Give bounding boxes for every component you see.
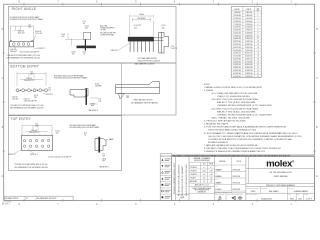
right angle front view body bbox=[10, 41, 34, 47]
svg-text:.045: .045 bbox=[85, 28, 88, 30]
svg-text:B: B bbox=[218, 196, 221, 201]
svg-text:4.50±.05: 4.50±.05 bbox=[35, 31, 41, 33]
svg-text:B: B bbox=[316, 125, 318, 129]
svg-text:.177±.002: .177±.002 bbox=[35, 33, 42, 35]
svg-text:SELECT TIN (3.80) .000150 MIN.: SELECT TIN (3.80) .000150 MIN. bbox=[217, 102, 257, 104]
svg-text:TYP: TYP bbox=[91, 106, 94, 108]
bottom entry side view bbox=[70, 89, 88, 98]
svg-text:OF PIN: OF PIN bbox=[100, 29, 105, 31]
bottom row cells bbox=[286, 193, 288, 200]
svg-text:.100: .100 bbox=[71, 54, 74, 56]
svg-text:±0.2: ±0.2 bbox=[203, 174, 206, 176]
svg-text:±.05: ±.05 bbox=[210, 178, 213, 180]
svg-text:CIRCUIT 1: CIRCUIT 1 bbox=[30, 154, 38, 156]
svg-text:.049: .049 bbox=[30, 73, 33, 75]
svg-text:SCA-41815: SCA-41815 bbox=[261, 197, 273, 200]
svg-text:(2.54): (2.54) bbox=[55, 130, 60, 132]
svg-text:2.54: 2.54 bbox=[171, 46, 174, 48]
dims above bottom entry front view bbox=[17, 72, 46, 86]
middle housing profile bbox=[84, 32, 91, 39]
svg-text:CIRCUIT 1: CIRCUIT 1 bbox=[46, 94, 54, 96]
svg-text:.100 TYP: .100 TYP bbox=[171, 48, 177, 50]
svg-text:CIRCUIT 1: CIRCUIT 1 bbox=[38, 48, 46, 50]
pins removed option figure bbox=[116, 82, 160, 94]
svg-text:CIRCUIT 1: CIRCUIT 1 bbox=[110, 50, 118, 52]
svg-text:DIM ‘B’: DIM ‘B’ bbox=[246, 9, 252, 11]
svg-text:NOTES:: NOTES: bbox=[204, 84, 210, 86]
svg-text:.200 REF: .200 REF bbox=[95, 85, 102, 87]
svg-text:A: A bbox=[2, 174, 4, 178]
svg-text:.440: .440 bbox=[61, 36, 64, 38]
svg-text:.200±.002: .200±.002 bbox=[12, 98, 19, 100]
svg-text:PSD: PSD bbox=[290, 198, 295, 200]
quality marks column bbox=[160, 154, 171, 201]
dimension chart table bbox=[231, 7, 261, 78]
svg-text:.200±.002: .200±.002 bbox=[10, 51, 17, 53]
svg-text:(1.14): (1.14) bbox=[161, 25, 166, 27]
AP box bbox=[176, 194, 190, 196]
svg-text:B: B bbox=[2, 125, 4, 129]
svg-text:63.50/2.500: 63.50/2.500 bbox=[233, 76, 241, 78]
svg-text:RECOMMENDED PCB THICKNESS .06: RECOMMENDED PCB THICKNESS .062/.093 bbox=[7, 58, 40, 60]
svg-text:58.42/2.300: 58.42/2.300 bbox=[245, 76, 253, 78]
svg-text:.049: .049 bbox=[28, 27, 31, 29]
svg-text:CHK: CHK bbox=[215, 166, 218, 168]
svg-text:(1.5): (1.5) bbox=[83, 21, 87, 23]
svg-text:.06: .06 bbox=[84, 134, 86, 136]
middle pin bbox=[85, 39, 86, 50]
svg-text:5.08±.05: 5.08±.05 bbox=[12, 96, 18, 98]
svg-text:molex®: molex® bbox=[266, 158, 295, 169]
disclaimer strip bbox=[172, 154, 315, 156]
svg-text:.049: .049 bbox=[35, 126, 38, 128]
svg-text:(5.08): (5.08) bbox=[95, 83, 100, 85]
svg-text:.146: .146 bbox=[102, 155, 105, 157]
right angle front view dimension lines bbox=[11, 25, 36, 41]
svg-text:.06: .06 bbox=[83, 23, 85, 25]
svg-text:.200±.002: .200±.002 bbox=[17, 33, 24, 35]
svg-text:5.08±.05: 5.08±.05 bbox=[26, 78, 32, 80]
svg-text:SEE NOTE 8: SEE NOTE 8 bbox=[88, 110, 98, 112]
box2 internal divider bbox=[121, 63, 123, 115]
release status table bbox=[5, 196, 74, 200]
svg-text:1.25: 1.25 bbox=[28, 25, 31, 27]
svg-text:1.02: 1.02 bbox=[126, 95, 129, 97]
svg-text:±0.5: ±0.5 bbox=[203, 178, 206, 180]
doc number row bbox=[259, 186, 261, 193]
svg-text:±0.05: ±0.05 bbox=[202, 170, 206, 172]
border frame bbox=[4, 4, 315, 200]
top entry side view bbox=[95, 139, 106, 151]
svg-text:TOP ENTRY: TOP ENTRY bbox=[10, 117, 31, 121]
svg-text:.146: .146 bbox=[98, 101, 101, 103]
svg-text:3.71: 3.71 bbox=[98, 99, 101, 101]
svg-text:000: 000 bbox=[298, 198, 301, 200]
svg-text:RECOMMENDED PCB THICKNESS .06: RECOMMENDED PCB THICKNESS .062/.093 bbox=[15, 167, 48, 169]
side view pin bar bbox=[86, 89, 88, 105]
svg-text:A-P: A-P bbox=[180, 197, 184, 200]
svg-text:WILL BE ROUND PIN: WILL BE ROUND PIN bbox=[100, 32, 115, 34]
svg-text:A: A bbox=[316, 174, 318, 178]
svg-text:SEE NOTE 8: SEE NOTE 8 bbox=[100, 166, 109, 168]
bottom entry front view circles bbox=[16, 89, 48, 92]
svg-text:(UNLESS SPECIFIED): (UNLESS SPECIFIED) bbox=[194, 160, 210, 162]
molex logo cell bbox=[247, 157, 249, 184]
DIM A bracket bbox=[130, 15, 154, 37]
svg-text:41815: 41815 bbox=[251, 191, 256, 193]
svg-text:TYPE: TYPE bbox=[288, 194, 291, 196]
svg-text:1997/01/28: 1997/01/28 bbox=[232, 189, 240, 191]
pins to side view bbox=[154, 38, 164, 40]
svg-text:1997/01/28: 1997/01/28 bbox=[232, 169, 240, 171]
svg-text:2. FINISH:: 2. FINISH: bbox=[204, 90, 214, 92]
svg-text:(1.5): (1.5) bbox=[84, 133, 88, 135]
svg-text:±.02: ±.02 bbox=[210, 174, 213, 176]
svg-text:RECOMMENDED PCB THICKNESS .06: RECOMMENDED PCB THICKNESS .062/.093 bbox=[10, 108, 43, 110]
svg-text:(3.3): (3.3) bbox=[83, 52, 87, 54]
svg-text:HOUSING 41815-N-XX-H WITHOUT: HOUSING 41815-N-XX-H WITHOUT RAMP bbox=[54, 77, 88, 80]
svg-text:1997/01/28: 1997/01/28 bbox=[232, 182, 240, 184]
svg-text:.13: .13 bbox=[83, 54, 85, 56]
svg-text:SHEET: SHEET bbox=[304, 194, 308, 196]
svg-text:NOTE: NOTE bbox=[237, 161, 241, 163]
svg-text:5.08±.05: 5.08±.05 bbox=[10, 49, 16, 51]
svg-text:1.25: 1.25 bbox=[30, 71, 33, 73]
svg-text:11.18: 11.18 bbox=[61, 34, 65, 36]
svg-text:1.25: 1.25 bbox=[35, 124, 38, 126]
svg-text:CIRCUIT 2: CIRCUIT 2 bbox=[8, 154, 16, 156]
notes block bbox=[204, 84, 302, 153]
dims above top entry bbox=[22, 125, 52, 136]
svg-text:SELECT TIN (3.80) .000150 MIN.: SELECT TIN (3.80) .000150 MIN. bbox=[217, 111, 257, 113]
table rows bbox=[231, 12, 261, 78]
svg-text:.040: .040 bbox=[126, 97, 129, 99]
svg-text:.100: .100 bbox=[48, 89, 51, 91]
RIGHT ANGLE section box bbox=[8, 6, 176, 63]
svg-text:REV: REV bbox=[297, 194, 300, 196]
middle pcb bar bbox=[77, 46, 96, 49]
svg-text:.045: .045 bbox=[134, 27, 137, 29]
svg-text:1 OF 1: 1 OF 1 bbox=[306, 199, 313, 201]
svg-text:DIM B REF: DIM B REF bbox=[137, 18, 145, 20]
svg-text:(1.14) TYP: (1.14) TYP bbox=[134, 25, 141, 27]
svg-text:24: 24 bbox=[257, 76, 259, 78]
svg-text:(1.14): (1.14) bbox=[85, 26, 90, 28]
svg-text:.045: .045 bbox=[161, 27, 164, 29]
svg-text:HOUSING 41815-N-XX-H WITHOUT: HOUSING 41815-N-XX-H WITHOUT RAMP bbox=[10, 18, 44, 21]
svg-text:.100: .100 bbox=[55, 132, 58, 134]
svg-text:DOCUMENT NUMBER: DOCUMENT NUMBER bbox=[247, 187, 259, 189]
svg-text:2.00±.05: 2.00±.05 bbox=[24, 98, 30, 100]
vertical pins bbox=[130, 41, 153, 52]
svg-text:5.08±.05: 5.08±.05 bbox=[31, 130, 37, 132]
svg-text:.200±.002 TYP: .200±.002 TYP bbox=[29, 132, 40, 134]
svg-text:BOTTOM ENTRY: BOTTOM ENTRY bbox=[10, 64, 39, 68]
svg-text:C: C bbox=[2, 76, 4, 80]
svg-text:D: D bbox=[2, 27, 4, 31]
side view body right bbox=[159, 32, 169, 53]
svg-text:(12.5): (12.5) bbox=[34, 95, 39, 97]
product customer drawing bar bbox=[246, 182, 315, 184]
svg-text:SEE CHART: SEE CHART bbox=[269, 190, 279, 193]
middle side view construction lines bbox=[65, 33, 85, 46]
thin approvals row bbox=[215, 190, 246, 192]
svg-text:2.54: 2.54 bbox=[48, 87, 51, 89]
svg-text:REL LEVEL 2: REL LEVEL 2 bbox=[2, 204, 10, 206]
svg-text:INSERTION DEPTH: INSERTION DEPTH bbox=[100, 27, 114, 29]
body corner nubs bbox=[10, 40, 33, 41]
svg-text:DOC CONTROL: DOC CONTROL bbox=[2, 202, 12, 204]
svg-text:DOC TYPE: DOC TYPE bbox=[261, 187, 267, 189]
svg-text:KK 156 HOUSING PCB: KK 156 HOUSING PCB bbox=[270, 172, 293, 174]
BOTTOM ENTRY section box bbox=[8, 63, 176, 115]
svg-text:TYP: TYP bbox=[102, 160, 105, 162]
svg-text:(2.54): (2.54) bbox=[71, 52, 76, 54]
TOP ENTRY section box bbox=[8, 116, 121, 171]
svg-text:C: C bbox=[316, 76, 318, 80]
svg-text:OVER (1.27) .000050 MIN. NICKE: OVER (1.27) .000050 MIN. NICKEL bbox=[217, 96, 250, 98]
size B cell bbox=[215, 192, 246, 194]
svg-text:1997/01/28: 1997/01/28 bbox=[232, 176, 240, 178]
svg-text:RIGHT ANGLE: RIGHT ANGLE bbox=[12, 7, 37, 11]
top entry front view body bbox=[22, 135, 53, 150]
projection symbols bbox=[232, 197, 234, 200]
svg-text:.200±.002 TYP: .200±.002 TYP bbox=[24, 80, 35, 82]
svg-text:5.08±.05: 5.08±.05 bbox=[18, 30, 24, 32]
svg-text:3.71: 3.71 bbox=[102, 154, 105, 156]
svg-text:D: D bbox=[316, 27, 318, 31]
svg-text:PINS REMOVED OPTION: PINS REMOVED OPTION bbox=[134, 100, 154, 102]
svg-text:41815 SERIES: 41815 SERIES bbox=[274, 176, 289, 178]
svg-text:P1: P1 bbox=[26, 198, 28, 200]
housing bar hatched bbox=[128, 37, 154, 42]
svg-text:±.007: ±.007 bbox=[209, 170, 213, 172]
drawn/checked rows bbox=[215, 157, 246, 194]
title block main outline bbox=[172, 157, 315, 201]
svg-text:.492: .492 bbox=[34, 97, 37, 99]
